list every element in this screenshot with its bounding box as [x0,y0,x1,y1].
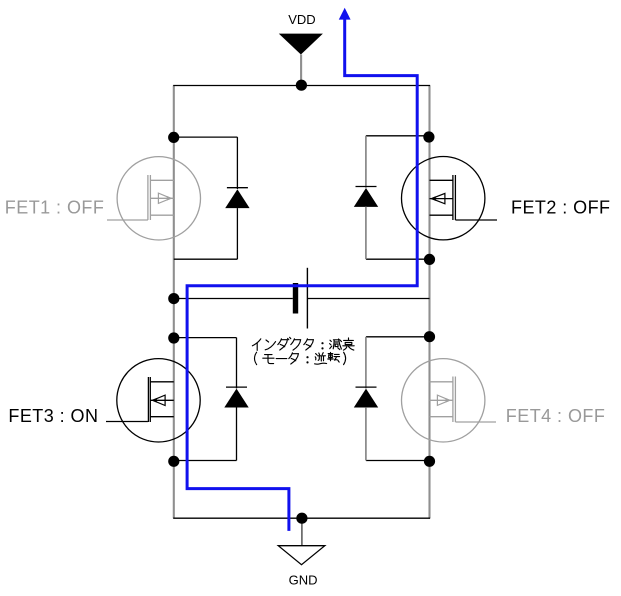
label FET3 : ON [8,406,98,426]
transistor FET2 (P-ch, OFF, black) [402,157,498,240]
node right D4 junction [424,331,435,342]
wire diode D1 branch bottom [174,258,238,260]
label FET4 : OFF [506,406,606,426]
node left D3 junction [168,332,179,343]
label FET1 : OFF [5,197,105,217]
node VDD junction [296,80,307,91]
wire motor left segment [174,298,293,300]
label GND [289,572,318,587]
wire diode D2 branch top [366,135,430,137]
wire motor right segment [307,298,429,300]
node GND junction [296,513,307,524]
wire right vertical bus [428,86,430,519]
node left top junction [168,132,179,143]
power VDD symbol [279,34,323,86]
svg-text:FET2 : OFF: FET2 : OFF [511,197,611,217]
svg-text:FET4 : OFF: FET4 : OFF [506,406,606,426]
ground GND symbol [278,518,325,565]
node right top junction [423,131,434,142]
wire diode D1 branch top [174,136,238,138]
node left bottom junction [168,456,179,467]
svg-text:VDD: VDD [288,12,315,27]
transistor FET3 (N-ch, ON, black) [106,359,200,442]
wire bottom rail [173,517,430,519]
label inductor line1: インダクタ：減衰 [252,337,354,350]
transistor FET1 (P-ch, OFF, grey) [107,157,201,240]
wire top rail [173,85,430,87]
diode D1 [225,137,249,259]
transistor FET4 (N-ch, OFF, grey) [402,359,497,442]
wire diode D4 branch top [366,336,430,338]
label VDD [288,12,315,27]
wire diode D3 branch bottom [174,460,237,462]
svg-text:FET1 : OFF: FET1 : OFF [5,197,105,217]
svg-text:GND: GND [289,572,318,587]
diode D3 [224,338,248,461]
wire left vertical bus [173,86,175,519]
label FET2 : OFF [511,197,611,217]
label inductor line2: （モータ：逆転） [255,352,346,364]
diode D4 [354,337,378,461]
svg-text:FET3 : ON: FET3 : ON [8,406,98,426]
node right mid junction (D2 bottom) [424,254,435,265]
diode D2 [354,136,378,259]
wire diode D2 branch bottom [366,258,430,260]
wire diode D4 branch bottom [366,460,430,462]
node right bottom junction [424,456,435,467]
wire blue current path [187,8,417,531]
wire diode D3 branch top [174,337,237,339]
node left motor junction [168,293,179,304]
inductor/motor element plates [293,268,308,329]
